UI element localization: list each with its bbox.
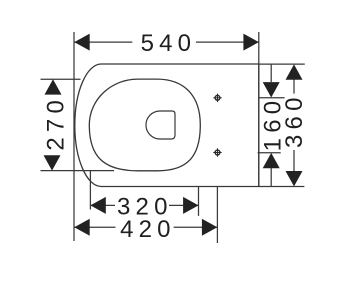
svg-text:420: 420 xyxy=(120,216,176,243)
svg-text:270: 270 xyxy=(43,95,70,151)
svg-text:540: 540 xyxy=(141,30,197,57)
svg-text:360: 360 xyxy=(281,92,308,148)
